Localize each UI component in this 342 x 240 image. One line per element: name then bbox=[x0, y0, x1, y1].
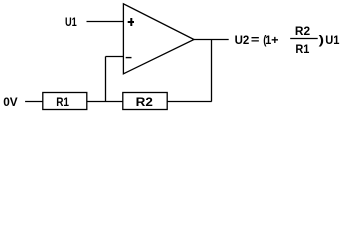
node U1 (input net label) bbox=[65, 15, 77, 29]
resistor R2 bbox=[123, 93, 167, 110]
svg-text:R2: R2 bbox=[136, 95, 153, 109]
node 0V (ground reference label) bbox=[3, 95, 18, 109]
resistor R1 bbox=[43, 93, 87, 110]
wire R1 to R2 (feedback junction) bbox=[87, 101, 123, 103]
svg-text:U1: U1 bbox=[325, 33, 339, 47]
fraction bar bbox=[290, 38, 318, 40]
pin - (inverting input marker) bbox=[126, 57, 132, 59]
wire 0V to R1 bbox=[25, 101, 43, 103]
svg-text:+: + bbox=[271, 33, 278, 47]
pin + (non-inverting input marker) bbox=[128, 18, 134, 26]
op-amp triangle bbox=[123, 4, 194, 74]
svg-text:R1: R1 bbox=[295, 42, 309, 56]
svg-text:0V: 0V bbox=[3, 95, 18, 109]
svg-text:=: = bbox=[251, 33, 260, 47]
wire U1 to non-inverting input bbox=[87, 21, 124, 23]
svg-text:): ) bbox=[319, 33, 324, 47]
wire feedback horizontal to inverting input bbox=[106, 56, 124, 58]
svg-text:U2: U2 bbox=[235, 33, 250, 47]
svg-text:U1: U1 bbox=[65, 15, 77, 29]
wire output horizontal bbox=[194, 39, 229, 41]
wire output branch vertical to R2 bbox=[211, 40, 213, 102]
svg-text:R2: R2 bbox=[295, 24, 310, 38]
node U2 output formula: U2 = (1 + R2/R1) U1 bbox=[235, 24, 340, 56]
wire R2 to output branch bbox=[167, 101, 212, 103]
wire feedback vertical bbox=[105, 57, 107, 102]
svg-text:R1: R1 bbox=[56, 95, 69, 109]
